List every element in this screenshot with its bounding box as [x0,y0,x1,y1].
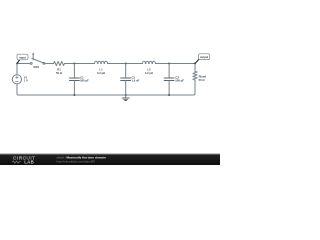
svg-text:L1: L1 [99,68,103,72]
capacitor C1 [69,64,79,96]
capacitor C2 [121,64,131,96]
wire V1 top stem [16,64,18,75]
label SW1 [33,65,39,69]
ground [122,95,129,101]
inductor L1 [95,61,108,63]
label L1 3.2uH [97,68,105,75]
svg-text:L2: L2 [147,68,151,72]
wire L1 to L2 [108,63,143,65]
wire R1 to L1 [64,63,94,65]
wire switch to R1 [45,63,54,65]
label C1 500pF [80,75,89,82]
inductor L2 [142,61,155,63]
svg-text:500 pF: 500 pF [175,79,184,83]
resistor R1 [54,61,65,65]
svg-text:http://circuitlab.com/c6puf55: http://circuitlab.com/c6puf55 [57,159,96,163]
svg-text:Rload: Rload [199,75,207,79]
label R1 50 Ohm [56,68,63,75]
wire bottom U rail from V1 bottom to Rload bottom [17,80,195,95]
node C3 bottom junction [168,94,170,96]
label V1 1V [24,76,28,83]
wire L2 to Rload corner [155,63,195,65]
svg-text:R1: R1 [57,68,61,72]
flag output [195,54,210,64]
flag input [17,54,28,63]
svg-text:1.6 nF: 1.6 nF [132,79,140,83]
label Rload 50 Ohm [199,75,207,82]
node C1 bottom junction [73,94,75,96]
node C1 junction [73,63,75,65]
footer logo resistor zigzag [12,161,20,163]
wire Rload top lead [194,64,196,72]
svg-text:LAB: LAB [24,160,34,165]
svg-text:output: output [200,55,208,59]
svg-text:1 V: 1 V [24,79,28,83]
switch SW1 [30,53,45,64]
svg-text:50 Ω: 50 Ω [56,71,63,75]
resistor Rload [193,71,197,80]
svg-text:3.2 µH: 3.2 µH [97,71,105,75]
svg-text:SW1: SW1 [33,65,39,69]
footer bar [0,153,220,165]
node C3 junction [168,63,170,65]
wire top-left corner to switch [17,63,30,65]
label L2 3.2uH [145,68,153,75]
label C2 1.6nF [132,75,140,82]
node ground junction [125,94,127,96]
node C2 junction [125,63,127,65]
svg-text:input: input [19,55,26,59]
svg-text:50 Ω: 50 Ω [199,78,206,82]
node input corner [16,63,18,65]
svg-text:500 pF: 500 pF [80,79,89,83]
voltage source V1 [12,75,21,84]
svg-text:3.2 µH: 3.2 µH [145,71,153,75]
label C3 500pF [175,75,184,82]
node Rload top corner [194,63,196,65]
capacitor C3 [164,64,174,96]
